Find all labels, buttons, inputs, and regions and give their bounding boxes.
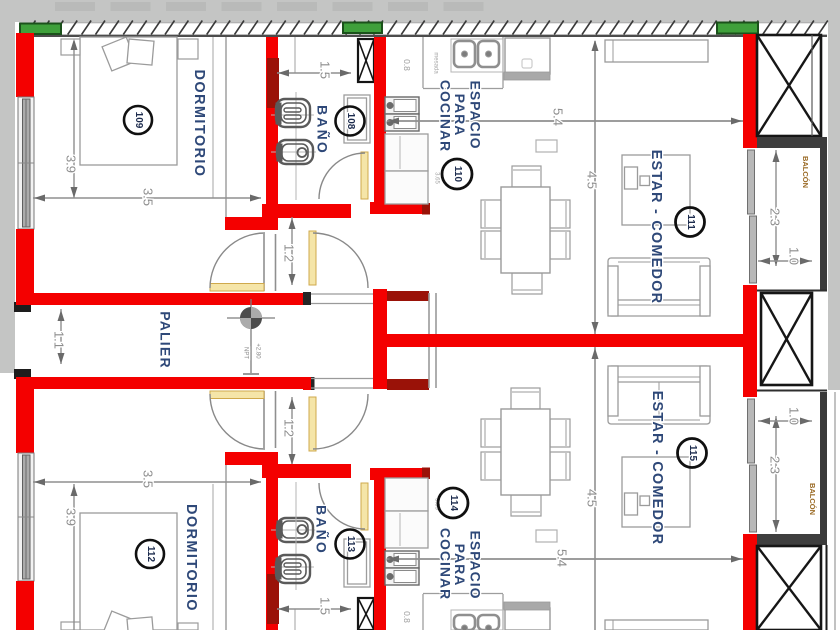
window W1 (green) xyxy=(20,24,61,35)
svg-text:1.5: 1.5 xyxy=(318,597,333,615)
nightstand 1a xyxy=(61,39,80,55)
svg-text:COCINAR: COCINAR xyxy=(437,528,453,600)
closet line dormitorio 1 xyxy=(225,37,227,217)
dim 3.5 horizontal bottom xyxy=(33,470,261,488)
dining table 1 xyxy=(501,187,550,273)
wall dormitorio1/bano1 vertical xyxy=(266,37,278,217)
svg-text:112: 112 xyxy=(145,546,156,563)
svg-text:+2.80: +2.80 xyxy=(254,343,260,359)
switch plate xyxy=(536,140,557,152)
svg-text:NPT: NPT xyxy=(242,347,248,359)
wall palier bottom end cap xyxy=(303,377,312,390)
svg-text:113: 113 xyxy=(345,536,356,553)
svg-text:3.5: 3.5 xyxy=(141,188,156,206)
wall bano1 bottom left xyxy=(262,204,351,218)
svg-text:111: 111 xyxy=(685,214,696,230)
wall bano2 top right xyxy=(370,468,428,480)
desk estar1 xyxy=(622,155,690,225)
svg-text:ESTAR - COMEDOR: ESTAR - COMEDOR xyxy=(649,391,665,546)
svg-text:3.9: 3.9 xyxy=(64,155,79,173)
svg-text:114: 114 xyxy=(448,495,459,512)
dim 1.2 hall1 xyxy=(282,217,297,285)
entry opening 1 threshold lines xyxy=(311,293,373,295)
shower bano2 xyxy=(344,539,370,587)
svg-text:110: 110 xyxy=(452,166,463,183)
svg-text:4.5: 4.5 xyxy=(585,171,600,189)
double sink cocina1 xyxy=(451,39,503,72)
door bano2 leaf (yellow) xyxy=(361,483,368,530)
door entry1 leaf (yellow) xyxy=(309,231,316,285)
svg-text:ESPACIO: ESPACIO xyxy=(467,81,483,150)
door bano1 leaf (yellow) xyxy=(361,152,368,199)
room tag 113 xyxy=(336,530,365,559)
duct shaft X bano2 xyxy=(358,598,374,630)
stove cocina2 xyxy=(504,602,550,630)
svg-text:1.2: 1.2 xyxy=(282,244,297,262)
toilet bano2 xyxy=(271,482,314,590)
door bano2 swing arc xyxy=(319,483,365,529)
shower bano1 xyxy=(344,95,370,143)
double sink cocina2 xyxy=(451,610,503,631)
nightstand 2a xyxy=(61,622,80,630)
dim 1.2 hall2 xyxy=(282,397,297,465)
toilet bano1 xyxy=(271,92,314,200)
svg-text:BALCÓN: BALCÓN xyxy=(801,156,810,188)
nightstand 2b xyxy=(178,623,198,630)
dining table 2 chairs xyxy=(511,388,540,409)
svg-text:3.5: 3.5 xyxy=(141,470,156,488)
svg-text:ESTAR - COMEDOR: ESTAR - COMEDOR xyxy=(648,150,664,305)
wall palier bottom xyxy=(16,377,310,389)
balcony1 parapet top (dark) xyxy=(757,137,822,148)
svg-text:ESPACIO: ESPACIO xyxy=(467,531,483,600)
balcony2 parapet (dark) xyxy=(757,534,822,545)
dim 3.9 vertical bottom xyxy=(64,484,79,630)
door frame posts bedroom2 xyxy=(263,391,265,448)
bidet bano2 xyxy=(271,518,316,542)
balcony1 floor line xyxy=(757,290,827,292)
svg-text:1.2: 1.2 xyxy=(282,419,297,437)
dim 3.9 vertical xyxy=(64,39,79,198)
svg-text:1.5: 1.5 xyxy=(318,61,333,79)
dim 2.3 balcony2 xyxy=(768,416,783,532)
door entry1 swing arc xyxy=(313,233,368,288)
dim 4.5 top arrows/text xyxy=(585,40,600,333)
svg-text:PALIER: PALIER xyxy=(157,311,173,369)
wall cap dark red 2 xyxy=(422,468,430,480)
svg-text:108: 108 xyxy=(345,113,356,130)
svg-text:4.5: 4.5 xyxy=(585,489,600,507)
svg-text:BAÑO: BAÑO xyxy=(314,105,331,155)
shaft bar top dark red xyxy=(387,291,429,301)
closet line dormitorio 2 xyxy=(225,465,227,630)
column X bottom xyxy=(757,546,821,630)
window W3 (green) xyxy=(717,23,758,34)
svg-text:2.3: 2.3 xyxy=(768,456,783,474)
wall left bottom segment xyxy=(16,581,34,630)
wall right lower red xyxy=(743,534,757,630)
fridge + counter cocina2 xyxy=(385,478,428,548)
dining table 1 chairs xyxy=(512,166,541,187)
svg-text:3.65: 3.65 xyxy=(433,172,439,184)
sofa estar1 xyxy=(608,258,710,316)
svg-text:BAÑO: BAÑO xyxy=(313,505,330,555)
svg-text:115: 115 xyxy=(687,445,698,462)
wall left middle segment xyxy=(16,229,34,305)
wall left outer top segment xyxy=(16,33,34,97)
column X middle xyxy=(761,293,812,385)
room tag 109 xyxy=(124,106,152,134)
switch plate 2 xyxy=(536,530,557,542)
faded tab row at very top xyxy=(55,2,95,11)
window left W4 (glazing) xyxy=(18,97,34,229)
duct shaft X bano1 xyxy=(358,39,374,82)
room tag 115 xyxy=(678,439,707,468)
entry opening 2 threshold lines xyxy=(311,378,373,380)
sofa estar2 xyxy=(608,366,710,424)
dim 5.4 bottom xyxy=(387,549,743,567)
column X top xyxy=(757,35,821,136)
room tag 114 xyxy=(438,488,468,518)
door bedroom1 leaf (yellow) xyxy=(210,284,264,292)
svg-text:BALCÓN: BALCÓN xyxy=(808,483,817,515)
wall dormitorio2/bano2 vertical xyxy=(266,465,278,630)
stove cocina1 xyxy=(504,38,550,80)
bidet bano1 xyxy=(271,140,316,164)
shaft right grey lines xyxy=(428,293,430,388)
dim 1.5 bano2 xyxy=(277,597,351,630)
door entry2 swing arc xyxy=(313,394,368,449)
room tag 110 xyxy=(442,159,472,189)
wall right upper red xyxy=(743,34,757,148)
svg-text:5.4: 5.4 xyxy=(551,108,566,126)
wall bano2/cocina vertical xyxy=(374,478,386,630)
dining table 2 xyxy=(501,409,550,495)
balcony2 top floor line xyxy=(757,390,827,392)
palier opening end caps (black) xyxy=(14,302,31,312)
dim 4.5 mid arrows xyxy=(592,348,599,359)
svg-text:5.4: 5.4 xyxy=(555,549,570,567)
central corridor wall red xyxy=(386,334,744,347)
svg-text:1.1: 1.1 xyxy=(52,331,67,349)
svg-text:0.8: 0.8 xyxy=(402,59,412,71)
bed dormitorio 2 xyxy=(80,513,177,635)
svg-text:DORMITORIO: DORMITORIO xyxy=(191,70,207,178)
exterior top wall (hatched) xyxy=(20,21,828,36)
washer+dryer cocina1 xyxy=(385,97,419,131)
balcony1 right edge dark xyxy=(820,137,827,290)
stair shaft red xyxy=(373,289,387,389)
dim 1.1 palier xyxy=(52,309,67,364)
window left W5 (glazing) xyxy=(18,453,34,581)
wall bano2 top left xyxy=(262,464,351,478)
level marker palier xyxy=(227,299,275,374)
svg-text:DORMITORIO: DORMITORIO xyxy=(183,504,199,612)
svg-text:3.9: 3.9 xyxy=(64,508,79,526)
svg-text:109: 109 xyxy=(133,112,144,129)
dim 1.0 balcony1 xyxy=(758,247,812,265)
room tag 108 xyxy=(336,107,365,136)
right boundary lines xyxy=(826,545,828,630)
sliding window balcony1 xyxy=(748,150,757,283)
window W2 (green) xyxy=(343,23,382,34)
wall left below palier xyxy=(16,377,34,453)
counter lines cocina1 xyxy=(422,37,424,88)
svg-text:2.3: 2.3 xyxy=(768,208,783,226)
nightstand 1b xyxy=(178,39,198,59)
sideboard estar2 xyxy=(605,620,708,630)
door frame posts bedroom1 xyxy=(263,234,265,291)
door bedroom2 swing arc xyxy=(210,394,265,449)
washer+dryer cocina2 xyxy=(385,551,419,585)
sliding window balcony2 xyxy=(748,399,757,532)
svg-text:mesada: mesada xyxy=(432,52,438,74)
bed dormitorio 1 xyxy=(80,37,177,165)
room tag 112 xyxy=(136,540,164,568)
balcony2 right edge dark xyxy=(820,392,827,545)
dim 1.5 bano1 xyxy=(277,37,351,79)
wall bano1/cocina vertical xyxy=(374,37,386,204)
wall bano1 bottom right xyxy=(370,202,428,214)
door bano1 swing arc xyxy=(319,153,365,199)
wall palier top end cap xyxy=(303,292,311,305)
wall cap dark red xyxy=(422,203,430,215)
svg-text:0.8: 0.8 xyxy=(402,611,412,623)
wall cap horizontal 2 xyxy=(225,452,278,465)
door bedroom2 leaf (yellow) xyxy=(210,391,264,399)
dim 3.5 horizontal xyxy=(33,188,261,206)
door entry2 leaf (yellow) xyxy=(309,397,316,451)
dim 5.4 top xyxy=(387,108,743,126)
svg-text:1.0: 1.0 xyxy=(787,247,802,265)
desk estar2 xyxy=(622,457,690,527)
wall right central red block xyxy=(743,285,757,397)
wall maroon segment 2 xyxy=(267,574,279,624)
wall palier top xyxy=(16,293,310,305)
wall maroon segment xyxy=(267,58,279,108)
dim 4.5 line full xyxy=(594,41,596,630)
counter lines cocina2 xyxy=(422,594,424,630)
fridge + counter cocina1 xyxy=(385,134,428,204)
door bedroom1 swing arc xyxy=(210,233,265,288)
svg-text:COCINAR: COCINAR xyxy=(437,80,453,152)
sideboard estar1 xyxy=(605,40,708,62)
wall cap horizontal xyxy=(225,217,278,230)
dim 1.0 balcony2 xyxy=(758,407,812,425)
room tag 111 xyxy=(676,208,705,237)
dim 2.3 balcony1 xyxy=(768,150,783,266)
svg-text:1.0: 1.0 xyxy=(787,407,802,425)
shaft bar bottom dark red xyxy=(387,379,429,390)
